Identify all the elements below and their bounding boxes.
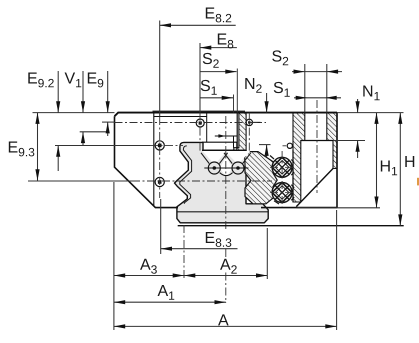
label A2 bbox=[220, 259, 237, 274]
orange page marker bbox=[417, 178, 419, 186]
dash-dot ref A3/A2 boundary bbox=[183, 225, 185, 279]
A bbox=[114, 325, 337, 327]
label E8 bbox=[218, 33, 234, 48]
label H bbox=[405, 156, 414, 167]
S2/S1 right bbox=[292, 71, 342, 73]
E8 left bbox=[200, 46, 211, 50]
E9 bbox=[106, 101, 110, 112]
E8.2 bbox=[160, 24, 236, 26]
label N1 bbox=[363, 85, 379, 100]
E9.2 bbox=[56, 101, 60, 112]
lube circles on end plate bbox=[204, 167, 248, 169]
lube funnel white cutouts bbox=[203, 151, 227, 165]
rail bottom bbox=[178, 225, 404, 227]
A2 bbox=[184, 273, 195, 277]
E8.2 left bbox=[160, 23, 171, 27]
end plate / seal (gray profile) bbox=[175, 142, 269, 222]
E9.3 up/down inside bbox=[35, 113, 39, 124]
label E9.2 bbox=[28, 72, 53, 87]
label A1 bbox=[158, 285, 175, 300]
A bbox=[114, 324, 125, 328]
label S1R bbox=[274, 82, 290, 97]
left refs bbox=[33, 112, 115, 114]
S1 right pair bbox=[296, 96, 307, 100]
V1 bbox=[81, 101, 85, 112]
end plate funnel diagonals bbox=[201, 153, 251, 164]
S2 left tip right bbox=[225, 70, 236, 74]
E8.3 bbox=[161, 248, 238, 250]
carriage outline strokes bbox=[115, 111, 338, 207]
label S2R bbox=[272, 50, 288, 65]
label H1 bbox=[381, 160, 397, 175]
label N2 bbox=[245, 78, 261, 93]
raceway lube hole bbox=[287, 143, 292, 148]
ball lower bbox=[272, 183, 292, 203]
label E9 bbox=[88, 72, 103, 87]
top mounting ports (screws) bbox=[196, 119, 260, 127]
carriage screw hole bottom + diagonal bbox=[293, 141, 333, 207]
ball upper bbox=[272, 157, 292, 177]
carriage hole right wall hatched bbox=[327, 113, 337, 169]
N1 down / up bbox=[356, 101, 360, 112]
H1 / H bbox=[376, 113, 378, 208]
label S2L bbox=[203, 53, 219, 68]
depth arrow inside rail hole bbox=[218, 134, 225, 137]
label E8.3 bbox=[206, 232, 232, 247]
ball center line bbox=[281, 151, 283, 207]
N1 bbox=[357, 99, 359, 113]
A3/A2 bbox=[114, 275, 267, 277]
A1 bbox=[114, 301, 226, 303]
label E9.3 bbox=[9, 141, 35, 156]
label A bbox=[218, 314, 229, 325]
rail top strip (hatched section) bbox=[234, 113, 246, 151]
S1 left bbox=[200, 97, 233, 99]
rail fixing hole (center) details bbox=[202, 113, 246, 151]
center lines dash-dot bbox=[115, 100, 318, 303]
label S1L bbox=[201, 80, 217, 95]
arrowheads bbox=[35, 23, 402, 328]
H1 bbox=[374, 113, 378, 124]
E8.3 left bbox=[161, 247, 172, 251]
carriage web hatched (left wall of screw hole + web) bbox=[293, 113, 305, 202]
label E8.2 bbox=[206, 7, 231, 22]
side ports (screws) bbox=[155, 141, 164, 187]
S2 right pair bbox=[294, 70, 305, 74]
S1 left tip right bbox=[222, 96, 233, 100]
left small dims bbox=[57, 71, 59, 113]
N2 down / up bbox=[265, 101, 269, 112]
label V1 bbox=[65, 72, 82, 87]
H bbox=[398, 113, 402, 124]
S2 left bbox=[200, 71, 237, 73]
label A3 bbox=[140, 259, 157, 274]
E8 bbox=[200, 47, 237, 49]
A1 bbox=[114, 300, 125, 304]
carriage body KWVE (white) bbox=[115, 113, 338, 208]
rail flank (hatched section with ball notches) bbox=[245, 152, 278, 204]
N2 bbox=[266, 93, 268, 113]
ball contact shoulders bbox=[270, 156, 294, 205]
A3 bbox=[114, 273, 125, 277]
